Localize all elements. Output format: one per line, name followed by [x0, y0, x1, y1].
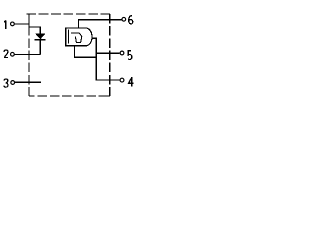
wire LED cathode down to pin2 wire	[39, 40, 41, 55]
pin 6 terminal	[122, 17, 126, 21]
pin 2 label	[4, 50, 8, 58]
wire GND: box bottom to output rail	[75, 46, 97, 57]
pin 5 terminal	[120, 51, 124, 55]
pin 4 terminal	[120, 78, 124, 82]
wire pin3 stub (NC)	[15, 81, 41, 83]
wire	[26, 13, 110, 15]
wire	[28, 14, 30, 96]
wire Vcc: box top to pin 6	[78, 20, 121, 28]
wire pin 5	[96, 52, 119, 54]
LED D1 triangle	[36, 34, 45, 39]
photo-IC detector U1 (D-shaped box)	[66, 28, 92, 46]
pin 4 label	[129, 77, 134, 86]
detector input line	[68, 30, 70, 44]
pin 1 terminal	[11, 22, 15, 26]
wire output tap from detector	[92, 35, 96, 80]
wire pin2 to LED cathode	[15, 53, 41, 55]
wire	[29, 95, 110, 97]
pin 6 label	[129, 16, 133, 24]
hysteresis symbol	[71, 33, 82, 43]
pin 2 terminal	[11, 52, 15, 56]
wire	[109, 14, 111, 96]
pin 1 label	[4, 21, 6, 29]
pin 3 label	[4, 79, 8, 87]
pin 3 terminal	[11, 81, 15, 85]
LED cathode bar	[34, 39, 45, 41]
package outline (dashed box)	[26, 14, 110, 96]
wire pin1 to LED anode	[15, 24, 41, 34]
wire pin 4	[96, 79, 119, 81]
pin 5 label	[128, 51, 132, 60]
